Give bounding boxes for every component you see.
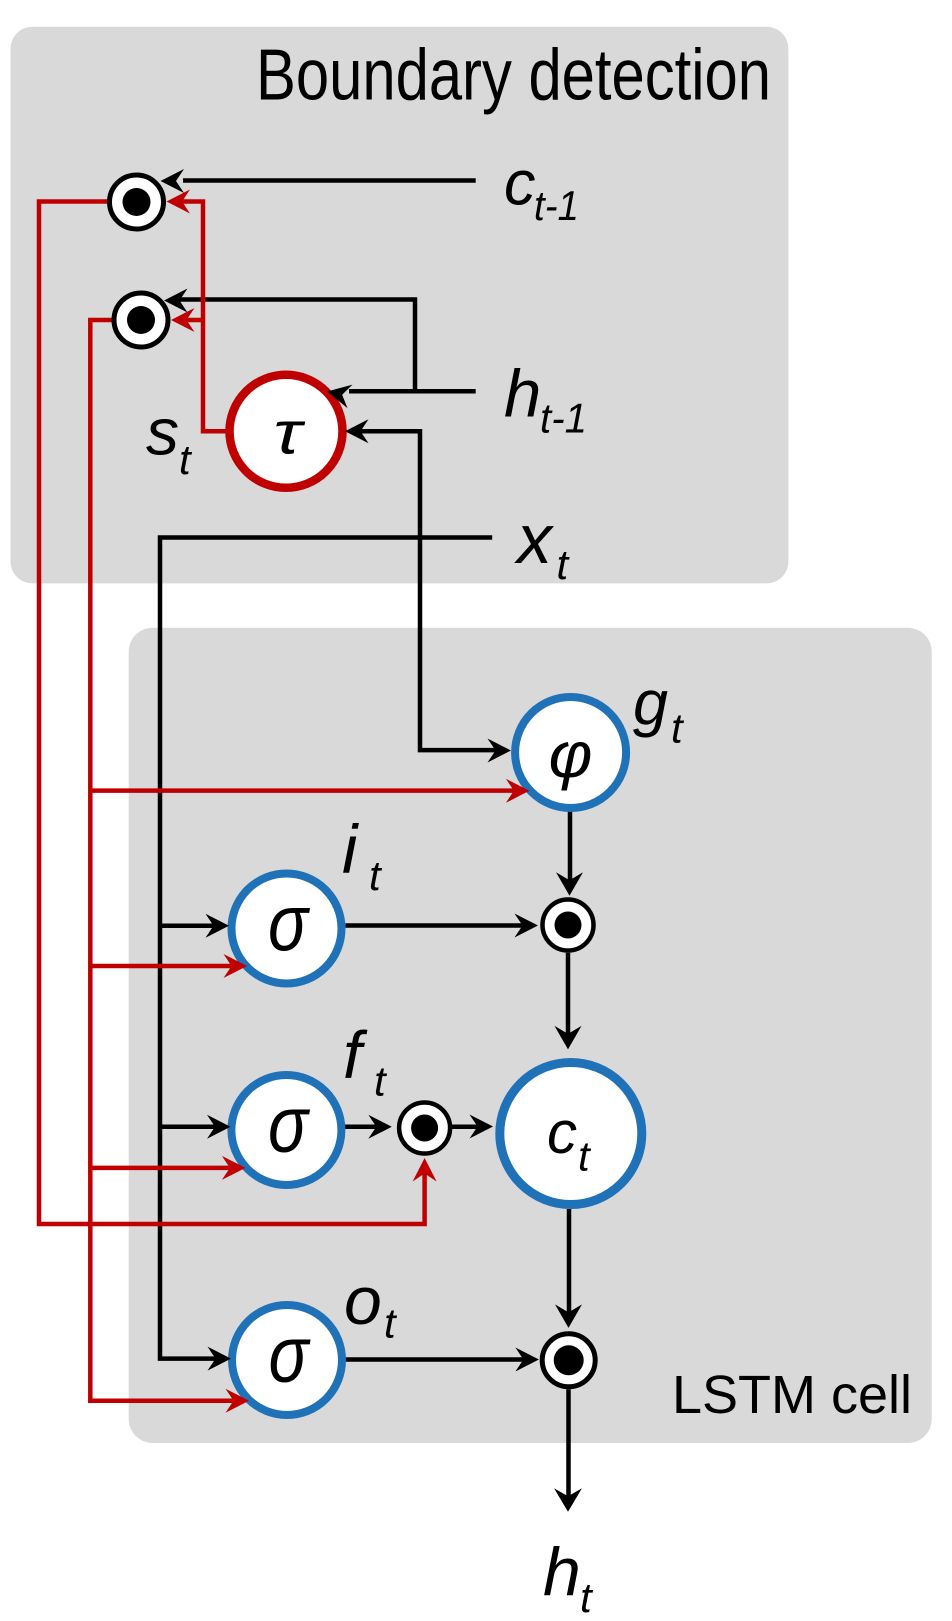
sigma i node [232, 874, 342, 984]
LSTM cell box [129, 628, 932, 1443]
svg-text:h: h [504, 357, 541, 432]
svg-text:σ: σ [268, 878, 310, 967]
svg-text:σ: σ [269, 1310, 311, 1399]
arrowhead into M1 (black, from c_t-1) [161, 169, 185, 193]
wire c_t-1 to mult M1 [183, 178, 476, 183]
svg-text:x: x [514, 500, 555, 578]
red arrowhead into M1 right (s_t) [167, 190, 191, 214]
svg-text:g: g [633, 669, 668, 739]
red arrowhead into sigma o [226, 1389, 250, 1413]
arrowhead into M3 left (black, from sigma i) [515, 914, 539, 938]
arrowhead down into M3 top (black, from phi) [556, 872, 583, 896]
red arrowhead into M2 right (s_t) [171, 308, 195, 332]
red wire M2 output net [90, 320, 522, 1401]
mult node M5 [542, 1334, 595, 1387]
svg-text:τ: τ [274, 400, 306, 467]
svg-text:o: o [344, 1263, 382, 1339]
phi node [515, 697, 626, 808]
svg-text:c: c [504, 149, 536, 219]
arrowhead down into c_t top (black, from M3) [555, 1026, 582, 1050]
wire h_t-1 net [171, 300, 476, 392]
svg-text:Boundary detection: Boundary detection [256, 35, 771, 115]
mult node M4 [399, 1103, 450, 1154]
wire M4 to c_t [452, 1125, 487, 1130]
arrowhead into sigma i (black) [206, 914, 230, 938]
arrowhead into M4 left (black, from sigma f) [368, 1115, 392, 1139]
boundary detection box [11, 27, 789, 584]
wire c_t down to M5 [567, 1209, 572, 1321]
wire sigma f to mult M4 [344, 1125, 385, 1130]
arrowhead into M5 left (black, from sigma o) [515, 1348, 539, 1372]
red wire M1 output net [39, 202, 425, 1225]
wire phi down to M3 [568, 811, 573, 889]
svg-text:t-1: t-1 [534, 182, 579, 229]
arrowhead into c_t left (black, from M4) [470, 1115, 494, 1139]
wire M5 down to h_t [566, 1389, 571, 1505]
svg-text:σ: σ [268, 1080, 310, 1169]
c_t node [500, 1063, 642, 1205]
red arrowhead into phi [506, 779, 530, 803]
red wire s_t net from tau [174, 202, 226, 432]
wire sigma o to mult M5 [345, 1357, 532, 1362]
arrowhead h_t output (black, down) [554, 1488, 582, 1512]
mult node M1 [110, 175, 164, 229]
svg-text:LSTM cell: LSTM cell [672, 1365, 912, 1425]
svg-text:φ: φ [549, 718, 593, 791]
wire M3 down to c_t [566, 953, 571, 1043]
red arrowhead up into M4 bottom [413, 1158, 437, 1182]
wire x_t net [160, 431, 504, 1358]
svg-text:h: h [543, 1534, 581, 1610]
red arrowhead into sigma f [222, 1156, 246, 1180]
red arrowhead into sigma i [224, 954, 248, 978]
sigma o node [232, 1305, 342, 1415]
tau node [230, 375, 343, 488]
arrowhead into tau upper-right (black) [325, 380, 353, 408]
svg-text:s: s [146, 395, 179, 469]
wire sigma i to mult M3 [345, 923, 531, 928]
mult node M3 [543, 900, 594, 951]
arrowhead into sigma f (black) [207, 1115, 231, 1139]
arrowhead down into M5 top (black, from c_t) [555, 1304, 582, 1328]
svg-text:c: c [547, 1099, 577, 1166]
mult node M2 [114, 293, 168, 347]
arrowhead into M2 (black, from h_t-1) [164, 289, 188, 313]
arrowhead into sigma o (black) [208, 1347, 232, 1371]
svg-text:i: i [342, 811, 359, 888]
sigma f node [231, 1075, 341, 1185]
arrowhead into tau right (black, from x_t) [345, 419, 369, 443]
arrowhead into phi left (black, from x_t) [488, 739, 512, 763]
svg-text:t-1: t-1 [540, 395, 587, 442]
